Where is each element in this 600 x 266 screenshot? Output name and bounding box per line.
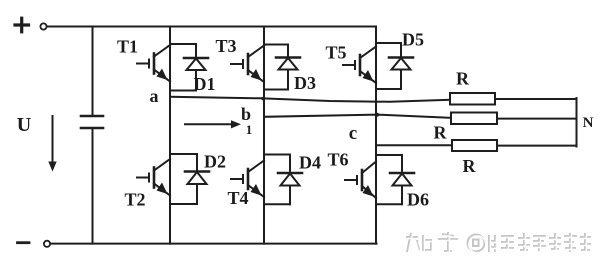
transistor T3: [231, 46, 264, 83]
voltage direction arrow: [48, 116, 56, 172]
watermark emboss highlight: [407, 233, 592, 253]
svg-text:T6: T6: [327, 150, 348, 170]
svg-text:D1: D1: [194, 74, 216, 94]
transistor T2: [137, 159, 170, 196]
svg-text:1: 1: [246, 122, 253, 137]
wire leg 3 vertical: [375, 27, 377, 244]
diode D5: [376, 43, 413, 89]
svg-text:b: b: [241, 104, 251, 124]
node b junction blob: [375, 113, 379, 117]
capacitor C (DC link): [81, 27, 103, 244]
diode D1: [170, 44, 208, 91]
svg-text:D5: D5: [402, 30, 424, 50]
svg-text:T2: T2: [124, 190, 145, 210]
diode D6: [376, 155, 414, 204]
resistor R phase a: [450, 93, 495, 105]
svg-text:R: R: [463, 156, 477, 176]
diode D2: [170, 154, 209, 204]
svg-text:T5: T5: [325, 43, 346, 63]
wire top DC rail: [47, 26, 376, 28]
watermark zhihu: [406, 232, 591, 252]
wire resistor a to N: [495, 98, 577, 100]
svg-text:D3: D3: [294, 73, 316, 93]
wire leg 2 vertical: [263, 27, 265, 244]
wire resistor b to N: [497, 118, 577, 120]
positive terminal circle: [40, 23, 46, 29]
wire phase a output: [170, 97, 450, 102]
svg-text:c: c: [349, 123, 357, 144]
svg-text:T1: T1: [117, 36, 138, 56]
svg-text:N: N: [583, 115, 594, 131]
svg-text:R: R: [434, 123, 448, 143]
minus terminal symbol: [18, 241, 30, 244]
plus terminal symbol: [15, 18, 29, 32]
svg-text:U: U: [17, 114, 31, 136]
wire phase c output: [376, 144, 452, 146]
svg-text:T4: T4: [227, 188, 248, 208]
wire leg 1 vertical: [169, 27, 171, 244]
svg-text:R: R: [456, 69, 470, 89]
svg-text:a: a: [150, 86, 159, 106]
wire neutral bus: [576, 98, 578, 147]
svg-text:T3: T3: [215, 36, 236, 56]
wire resistor c to N: [497, 145, 577, 147]
svg-text:D6: D6: [407, 190, 429, 210]
transistor T4: [231, 161, 264, 198]
transistor T1: [137, 45, 170, 82]
transistor T5: [343, 47, 376, 84]
diode D4: [264, 155, 302, 205]
diode D3: [264, 45, 300, 90]
wire bottom DC rail: [51, 243, 377, 245]
svg-text:D4: D4: [299, 153, 321, 173]
current arrow i: [185, 120, 241, 128]
transistor T6: [345, 162, 376, 199]
node a junction blob: [261, 97, 264, 100]
wire phase b output: [264, 115, 451, 118]
svg-text:D2: D2: [204, 152, 226, 172]
resistor R phase b: [451, 113, 497, 125]
resistor R phase c: [452, 140, 497, 151]
negative terminal circle: [44, 241, 50, 247]
